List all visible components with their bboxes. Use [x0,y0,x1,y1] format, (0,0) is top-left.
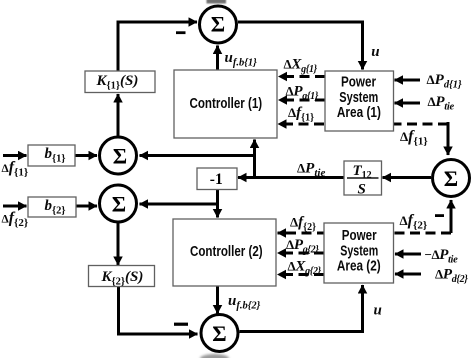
svg-text:-1: -1 [210,171,223,188]
svg-text:System: System [339,90,378,106]
block K(2)(S) [89,266,155,287]
svg-text:Area (1): Area (1) [337,105,381,121]
gray smudge bottom [200,354,229,358]
wire dashed Delta Pg(2) [278,252,325,255]
wire top summer to PSA1 (u) [238,22,363,70]
svg-text:Σ: Σ [113,144,127,169]
wire K1 output to top summer [118,22,197,71]
wire Delta f(1) into b1 [3,154,27,157]
minus sign bottom summer [174,323,188,326]
svg-text:Σ: Σ [112,192,126,217]
summer top area1 [200,6,237,43]
svg-text:System: System [340,243,378,259]
wire T12/S to -1 block [238,176,344,179]
wire summer B to K2 [117,223,120,265]
wire Delta Ptie branch to summer A [140,154,255,157]
block b(1) [28,145,75,166]
svg-text:u: u [374,303,382,319]
block Power System Area (2) [324,223,394,283]
wire bottom summer to PSA2 (u) [240,285,363,332]
wire b2 to summer B [76,205,97,208]
svg-text:Area (2): Area (2) [337,259,381,275]
wire u.f.b(1) controller1 to top summer [216,46,219,71]
wire Delta f(2) into b2 [3,205,27,208]
svg-text:Power: Power [342,228,377,244]
wire Delta Pd(1) input [395,79,421,82]
block K(1)(S) [85,71,155,93]
wire summer A to K1 [117,94,120,136]
block b(2) [28,197,76,217]
summer bottom area2 [201,315,238,352]
fraction bar T12/S [347,177,379,179]
wire Delta Ptie up into controller1 [253,140,256,178]
block Controller (2) [173,219,276,286]
svg-text:S: S [358,182,366,198]
wire Delta Pd(2) input [395,273,421,276]
summer A (area1 ACE) [100,137,137,174]
wire dashed Delta f(1) feedback [278,123,448,126]
wire Delta f(2) up to right summer [450,200,453,233]
minus sign right summer [435,214,444,217]
block T12/S [344,161,382,195]
svg-text:Controller (1): Controller (1) [190,96,263,112]
wire dashed Delta Xg(1) [279,75,326,78]
block Controller (1) [174,70,277,138]
wire Delta f(1) down to right summer [447,122,450,155]
wire -Delta Ptie branch to summer B [140,203,218,206]
wire -Delta Ptie input area2 [395,253,421,256]
wire dashed Delta Xg(2) [278,273,325,276]
summer B (area2 ACE) [100,185,137,222]
wire Delta Ptie input area1 [395,102,421,105]
svg-text:Σ: Σ [212,321,226,346]
wire b1 to summer A [75,154,97,157]
gray smudge top [207,0,227,4]
svg-text:Σ: Σ [444,166,458,191]
summer right (tie line) [433,160,470,197]
wire K2 output to bottom summer [119,287,198,335]
wire dashed Delta Pg(1) [279,99,326,102]
wire right summer to T12/S [383,176,432,179]
block Power System Area (1) [325,71,394,131]
svg-text:Σ: Σ [211,12,225,37]
svg-text:Power: Power [341,75,376,91]
minus sign top summer [176,31,186,34]
block -1 [197,168,237,190]
wire dashed Delta f(2) feedback [278,232,452,235]
wire u.f.b(2) controller2 to bottom summer [216,286,219,314]
wire -1 output into controller2 [216,189,219,218]
svg-text:Controller (2): Controller (2) [190,244,263,260]
svg-text:u: u [371,44,379,60]
